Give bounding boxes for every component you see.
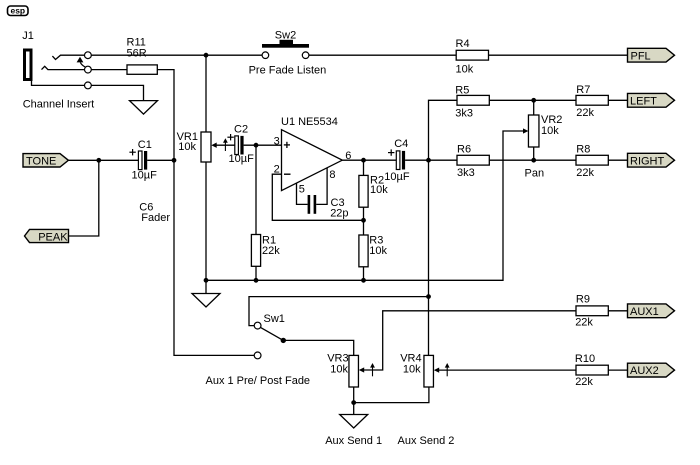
- wire R10 to AUX2: [608, 369, 627, 371]
- op-amp U1: [282, 130, 343, 191]
- wire Sw1 to VR3: [283, 340, 353, 355]
- capacitor C1: [138, 151, 142, 170]
- jack tip circle: [85, 52, 92, 59]
- svg-text:22k: 22k: [262, 245, 280, 257]
- jack sleeve wire: [32, 80, 85, 86]
- pot VR4 set arrow: [446, 366, 448, 377]
- pot VR1: [201, 132, 211, 162]
- wire R7 to LEFT: [608, 99, 627, 101]
- svg-text:10k: 10k: [541, 125, 559, 137]
- node left bus: [531, 98, 536, 103]
- svg-text:R7: R7: [576, 84, 590, 96]
- switch Sw2 button: [262, 44, 309, 48]
- node gnd R1: [254, 278, 259, 283]
- svg-text:C1: C1: [138, 139, 152, 151]
- svg-text:C4: C4: [394, 138, 408, 150]
- pot VR4 wiper arrow: [434, 368, 439, 373]
- svg-text:10µF: 10µF: [384, 171, 410, 183]
- svg-text:U1 NE5534: U1 NE5534: [281, 116, 338, 128]
- jack ring contact: [42, 66, 85, 69]
- svg-text:PFL: PFL: [631, 50, 651, 62]
- wire C2 out: [244, 144, 282, 146]
- svg-text:Aux 1 Pre/ Post Fade: Aux 1 Pre/ Post Fade: [206, 375, 311, 387]
- capacitor C2: [235, 136, 239, 155]
- svg-text:Pre Fade Listen: Pre Fade Listen: [249, 65, 327, 77]
- svg-text:AUX1: AUX1: [630, 306, 659, 318]
- svg-text:R5: R5: [455, 85, 469, 97]
- wire R6 to R8: [489, 159, 576, 161]
- wire R2 top: [363, 160, 365, 175]
- wire R3 bottom: [363, 267, 365, 281]
- wire R4 to PFL: [489, 54, 628, 56]
- wire VR1 bottom: [205, 162, 207, 280]
- svg-text:5: 5: [299, 183, 305, 195]
- opamp plus sign: [284, 144, 290, 146]
- wire Sw2 to R4: [309, 54, 456, 56]
- flag PFL: [628, 48, 675, 62]
- flag RIGHT: [628, 153, 675, 167]
- node TONE/PEAK: [96, 158, 101, 163]
- svg-text:R4: R4: [456, 38, 470, 50]
- svg-text:10k: 10k: [370, 184, 388, 196]
- wire opamp out: [342, 159, 396, 161]
- pot VR3 wiper arrow: [359, 367, 364, 372]
- switch Sw1 pole: [281, 338, 286, 343]
- pot VR3: [349, 355, 359, 387]
- svg-text:10k: 10k: [456, 64, 474, 76]
- svg-text:10k: 10k: [178, 141, 196, 153]
- svg-text:Pan: Pan: [525, 168, 545, 180]
- svg-text:J1: J1: [22, 30, 34, 42]
- svg-text:AUX2: AUX2: [630, 365, 659, 377]
- resistor R8: [576, 155, 608, 165]
- node right bus: [531, 158, 536, 163]
- wire C4 out: [405, 159, 457, 161]
- wire R1 riser: [255, 145, 257, 234]
- svg-text:R8: R8: [576, 144, 590, 156]
- flag PEAK: [25, 229, 69, 242]
- resistor R11: [127, 65, 157, 74]
- svg-text:3k3: 3k3: [457, 167, 475, 179]
- switch Sw1 bottom contact: [254, 352, 261, 359]
- pot VR1 set arrow: [224, 141, 226, 151]
- wire sleeve to ground: [91, 85, 143, 100]
- wire VR1 riser: [205, 55, 207, 132]
- node opamp out: [361, 158, 366, 163]
- resistor R4: [456, 50, 488, 60]
- switch Sw1 lever: [261, 327, 284, 340]
- wire R3 top: [363, 220, 365, 235]
- wire post down: [428, 160, 430, 355]
- wire feedback: [272, 174, 363, 220]
- resistor R5: [457, 95, 489, 105]
- capacitor C3: [308, 195, 311, 214]
- svg-text:10k: 10k: [330, 364, 348, 376]
- resistor R2: [359, 175, 368, 207]
- svg-text:10k: 10k: [403, 364, 421, 376]
- wire R2 bottom: [363, 207, 365, 220]
- switch Sw2 contacts: [262, 52, 269, 59]
- capacitor C4: [396, 151, 400, 170]
- flag LEFT: [628, 93, 675, 107]
- svg-text:2: 2: [274, 163, 280, 175]
- svg-text:22k: 22k: [576, 167, 594, 179]
- node aux gnd: [351, 400, 356, 405]
- svg-text:VR3: VR3: [327, 352, 348, 364]
- resistor R1: [251, 235, 260, 267]
- wire VR1 wiper: [217, 144, 235, 146]
- jack tip contact: [52, 55, 84, 59]
- resistor R10: [576, 365, 608, 375]
- ESP logo: [8, 5, 29, 15]
- connector J1 body: [25, 50, 32, 80]
- node post bus: [426, 294, 431, 299]
- pot VR4: [424, 355, 434, 387]
- wire VR2 top: [533, 100, 535, 115]
- pot VR2 wiper arrow: [523, 128, 528, 133]
- pot VR1 wiper arrow: [211, 143, 216, 148]
- svg-text:Aux Send 1: Aux Send 1: [325, 435, 382, 447]
- svg-text:3: 3: [274, 135, 280, 147]
- wire to PEAK: [69, 160, 99, 236]
- svg-text:56R: 56R: [127, 47, 147, 59]
- flag AUX1: [628, 304, 675, 318]
- wire R1 bottom: [255, 266, 257, 280]
- wire TONE to C1: [68, 159, 138, 161]
- wire R11 down to Sw1: [157, 70, 254, 356]
- wire VR4 wiper to R10: [439, 369, 576, 371]
- jack ring circle: [85, 66, 92, 73]
- switch Sw1 top contact: [254, 322, 261, 329]
- node gnd VR1: [204, 278, 209, 283]
- svg-text:RIGHT: RIGHT: [630, 155, 665, 167]
- node C1 out: [172, 158, 177, 163]
- resistor R9: [576, 306, 608, 316]
- svg-text:Fader: Fader: [141, 212, 170, 224]
- svg-text:10µF: 10µF: [229, 153, 255, 165]
- jack switch arrow: [77, 57, 84, 63]
- svg-text:10k: 10k: [369, 245, 387, 257]
- svg-text:Channel Insert: Channel Insert: [23, 99, 95, 111]
- ground aux: [353, 403, 355, 415]
- svg-text:22k: 22k: [575, 317, 593, 329]
- wire C1 out: [147, 159, 174, 161]
- wire VR2 bottom: [533, 147, 535, 160]
- resistor R7: [576, 95, 608, 105]
- wire VR3 wiper to R9: [364, 311, 576, 370]
- node post fade: [426, 158, 431, 163]
- node fader feed: [204, 53, 209, 58]
- wire pin5: [297, 183, 308, 204]
- wire ring to R11: [91, 69, 127, 71]
- svg-text:Sw1: Sw1: [264, 313, 285, 325]
- svg-text:C2: C2: [234, 124, 248, 136]
- svg-text:Sw2: Sw2: [275, 29, 296, 41]
- wire post up to R5: [429, 100, 458, 160]
- svg-text:VR4: VR4: [400, 352, 421, 364]
- pot VR2: [528, 115, 539, 147]
- svg-text:3k3: 3k3: [455, 108, 473, 120]
- svg-text:Aux Send 2: Aux Send 2: [398, 435, 455, 447]
- svg-text:R6: R6: [457, 144, 471, 156]
- wire post to Sw1: [249, 297, 429, 326]
- svg-text:R9: R9: [576, 293, 590, 305]
- node feedback: [361, 218, 366, 223]
- node opamp plus in: [254, 143, 259, 148]
- wire R9 to AUX1: [608, 310, 627, 312]
- svg-text:22p: 22p: [330, 207, 348, 219]
- jack sleeve circle: [85, 82, 92, 89]
- svg-text:PEAK: PEAK: [38, 231, 68, 243]
- svg-text:22k: 22k: [575, 376, 593, 388]
- wire pin8: [316, 168, 327, 205]
- svg-text:8: 8: [329, 169, 335, 181]
- svg-text:LEFT: LEFT: [630, 96, 657, 108]
- wire R8 to RIGHT: [608, 159, 627, 161]
- svg-text:esp: esp: [10, 5, 25, 15]
- ground insert: [130, 101, 158, 115]
- wire VR3 bottom: [353, 387, 355, 403]
- opamp minus sign: [284, 173, 291, 175]
- flag AUX2: [628, 363, 675, 377]
- svg-text:R10: R10: [575, 353, 595, 365]
- svg-text:TONE: TONE: [26, 156, 56, 168]
- wire tip to Sw2: [91, 54, 262, 56]
- wire ground rail: [206, 131, 523, 280]
- wire aux gnd rail: [354, 387, 429, 403]
- flag TONE: [23, 154, 68, 167]
- pot VR3 set arrow: [372, 366, 374, 377]
- wire R5 to R7: [489, 99, 576, 101]
- ground main: [205, 280, 207, 293]
- resistor R3: [359, 235, 368, 267]
- svg-text:10µF: 10µF: [132, 169, 158, 181]
- node gnd R3: [361, 278, 366, 283]
- svg-text:22k: 22k: [576, 107, 594, 119]
- resistor R6: [457, 155, 489, 165]
